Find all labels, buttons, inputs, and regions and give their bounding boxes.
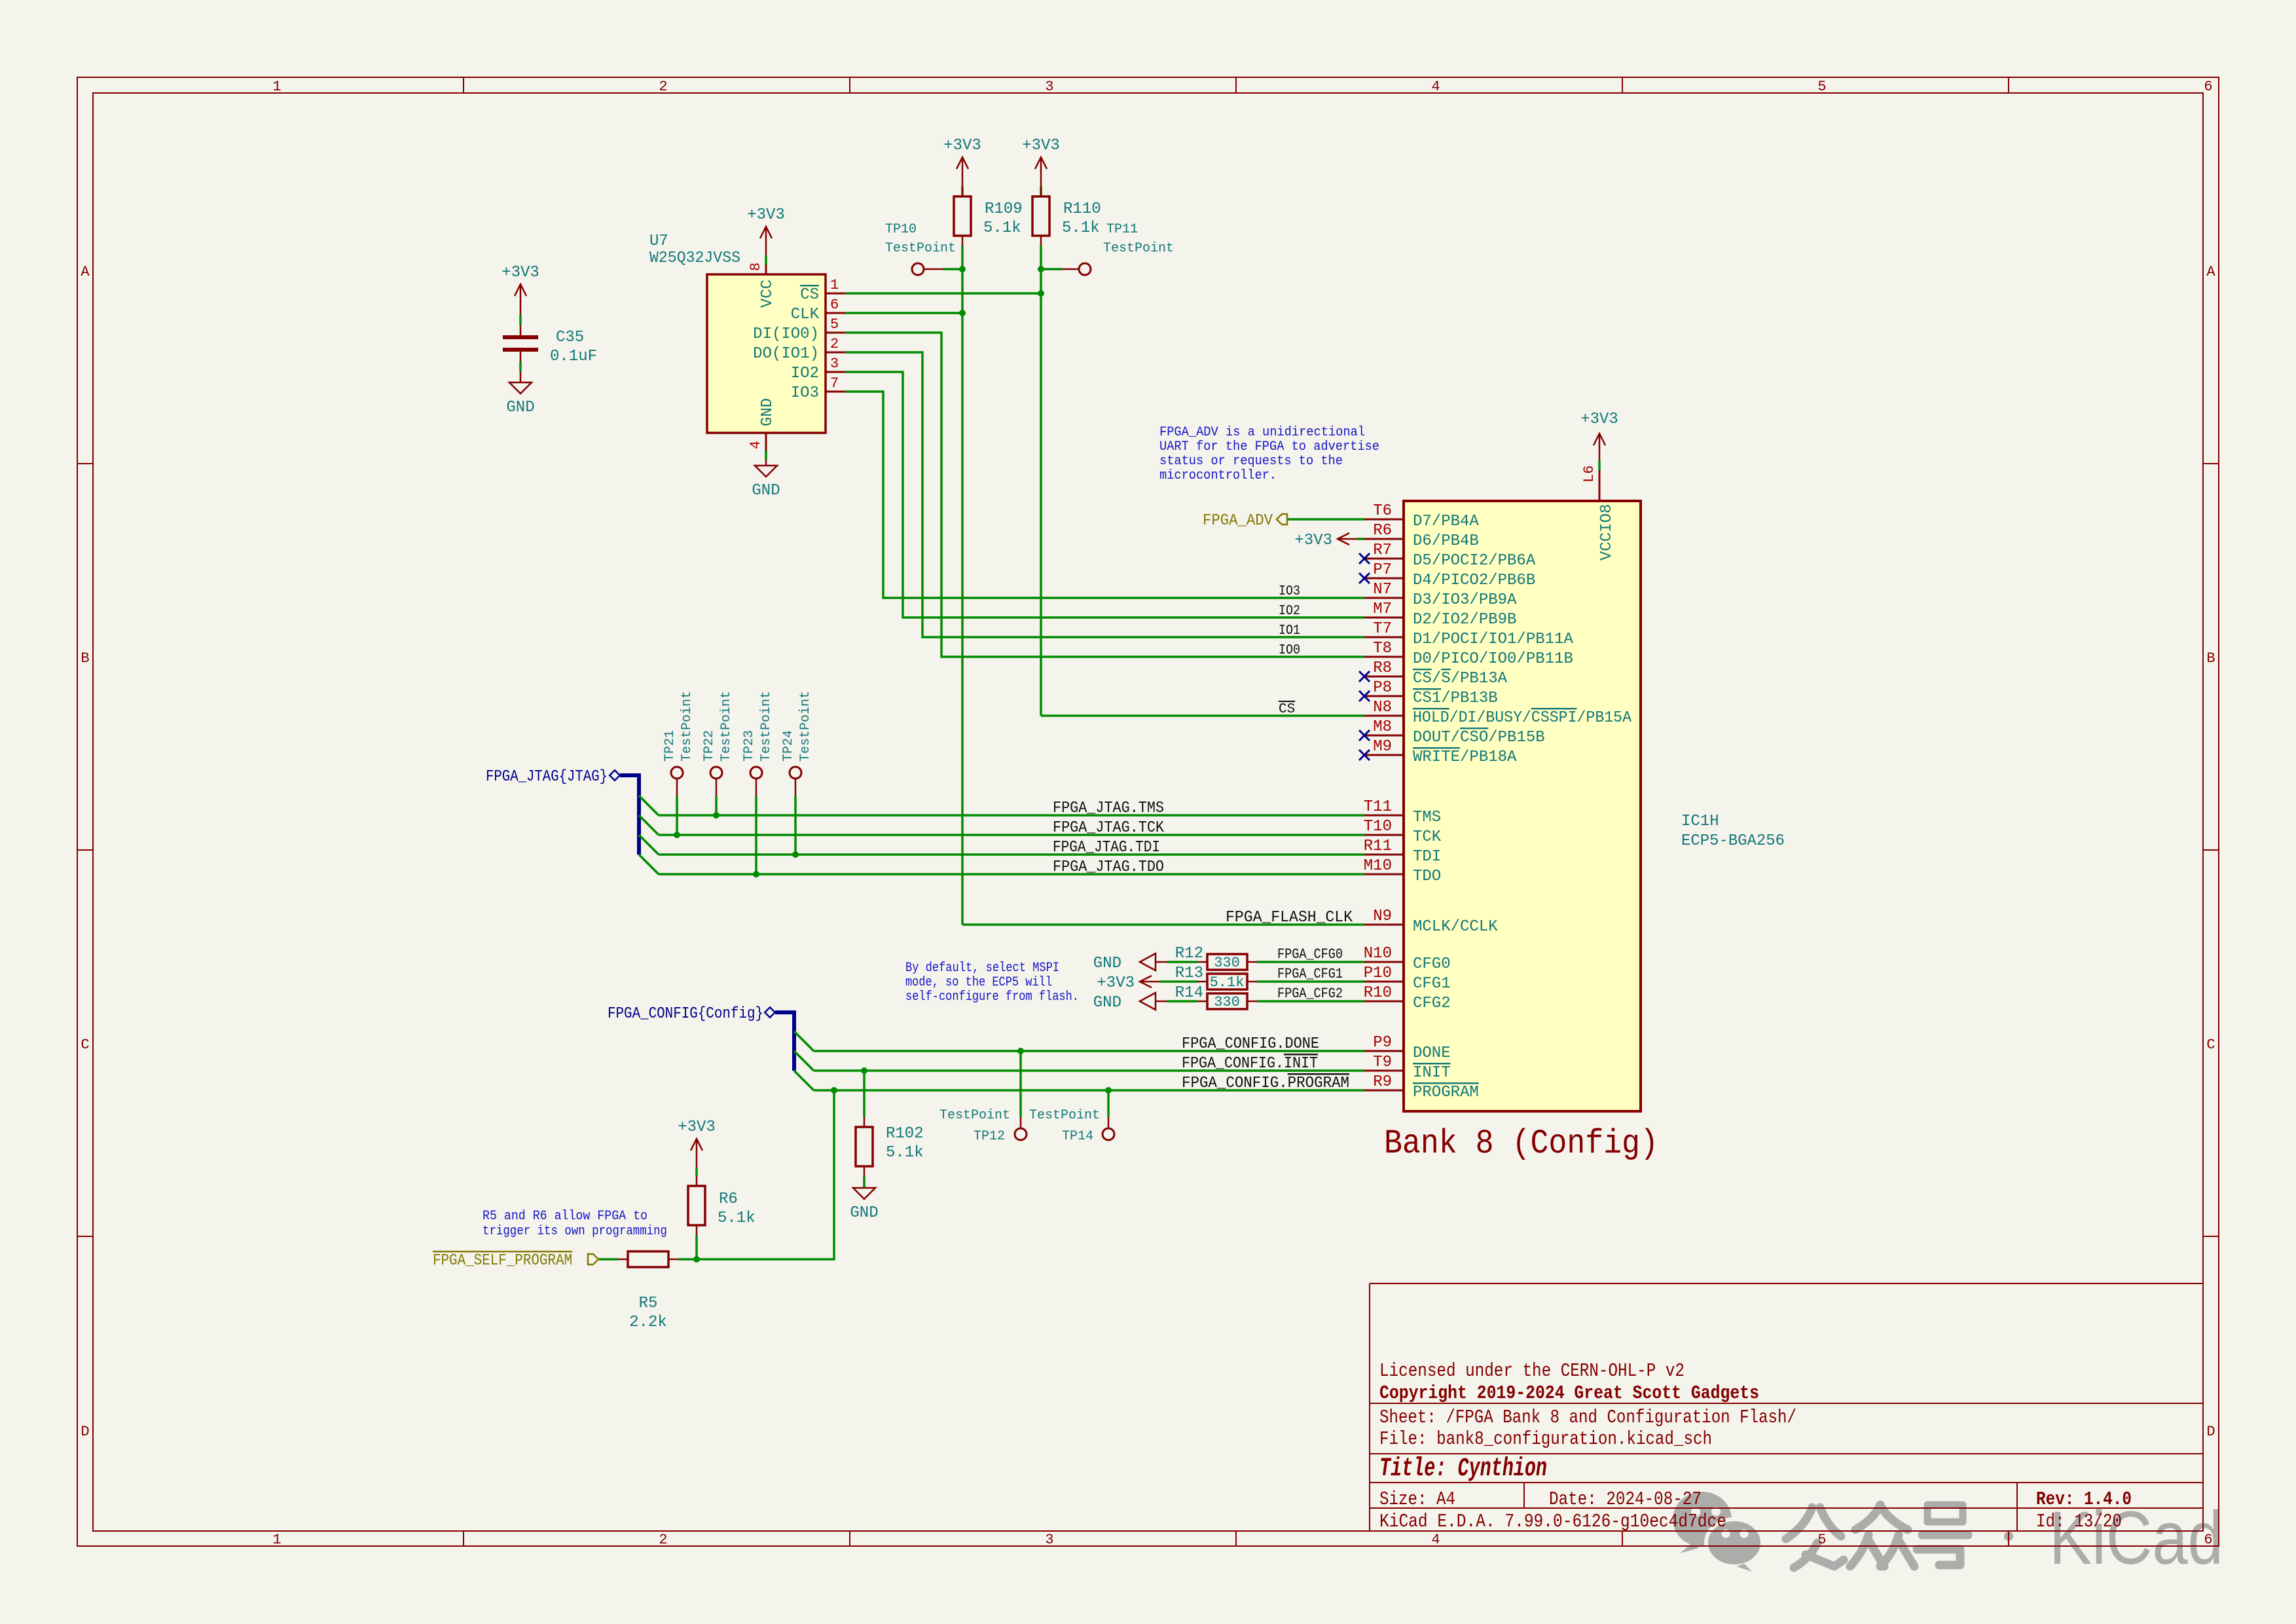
pin R10 IC1H [1364, 1001, 1404, 1003]
wire FPGA_JTAG.TCK to T10 [659, 834, 1364, 836]
svg-text:6: 6 [2204, 79, 2212, 95]
svg-text:TP23: TP23 [742, 730, 757, 762]
svg-text:FPGA_CONFIG.DONE: FPGA_CONFIG.DONE [1182, 1035, 1319, 1053]
svg-text:FPGA_CFG1: FPGA_CFG1 [1277, 966, 1343, 982]
wire TP24 [795, 779, 797, 796]
svg-text:TP22: TP22 [702, 730, 717, 762]
pin 5 U7 [826, 332, 845, 334]
svg-text:CLK: CLK [791, 306, 820, 323]
no-connect P7 [1359, 573, 1370, 583]
svg-text:D0/PICO/IO0/PB11B: D0/PICO/IO0/PB11B [1413, 650, 1573, 668]
junction [959, 310, 966, 316]
pin 8 VCC [765, 245, 767, 255]
svg-text:T6: T6 [1373, 502, 1392, 520]
svg-text:T7: T7 [1373, 620, 1392, 638]
svg-text:R12: R12 [1175, 945, 1203, 963]
pin P7 IC1H [1364, 578, 1404, 580]
svg-text:W25Q32JVSS: W25Q32JVSS [649, 249, 740, 267]
svg-text:Size: A4: Size: A4 [1379, 1488, 1455, 1510]
wire [1167, 961, 1172, 963]
svg-text:5.1k: 5.1k [886, 1144, 924, 1162]
svg-text:CS1/PB13B: CS1/PB13B [1413, 690, 1498, 707]
svg-text:CS/S/PB13A: CS/S/PB13A [1413, 670, 1508, 688]
resistor R5 2.2k [628, 1251, 668, 1267]
svg-text:L6: L6 [1581, 466, 1597, 483]
junction [1017, 1048, 1024, 1054]
wire [1167, 1000, 1172, 1003]
svg-text:File: bank8_configuration.kica: File: bank8_configuration.kicad_sch [1379, 1428, 1712, 1450]
svg-text:D1/POCI/IO1/PB11A: D1/POCI/IO1/PB11A [1413, 631, 1573, 648]
svg-text:GND: GND [1093, 955, 1121, 972]
resistor R102 5.1k [856, 1127, 873, 1166]
pin M7 IC1H [1364, 617, 1404, 619]
wire CS pin1 to R110 column [845, 292, 1041, 295]
junction [792, 851, 799, 858]
svg-text:N10: N10 [1364, 945, 1392, 963]
pin M10 IC1H [1364, 874, 1404, 876]
svg-text:FPGA_CFG0: FPGA_CFG0 [1277, 946, 1343, 963]
svg-text:R102: R102 [886, 1125, 924, 1143]
ground GND (R102) [853, 1188, 875, 1199]
power +3V3 (R110) [1035, 157, 1047, 175]
svg-text:5: 5 [830, 316, 839, 333]
wire [1159, 980, 1172, 983]
svg-text:TestPoint: TestPoint [885, 241, 956, 256]
svg-text:+3V3: +3V3 [1097, 974, 1135, 992]
junction [713, 812, 720, 819]
svg-text:4: 4 [748, 441, 764, 449]
pin 2 U7 [826, 352, 845, 354]
power +3V3 (VCCIO8) [1594, 434, 1605, 452]
wire IO2 to M7 [845, 372, 1364, 618]
svg-text:5: 5 [1817, 1532, 1826, 1548]
svg-text:C: C [2206, 1037, 2215, 1053]
svg-text:R13: R13 [1175, 965, 1203, 982]
svg-text:FPGA_JTAG.TDO: FPGA_JTAG.TDO [1053, 858, 1164, 876]
svg-text:+3V3: +3V3 [1580, 411, 1618, 428]
pin 4 GND [765, 433, 767, 451]
svg-text:R5 and R6 allow FPGA to: R5 and R6 allow FPGA to [483, 1209, 647, 1224]
svg-text:GND: GND [850, 1204, 878, 1222]
pin R11 IC1H [1364, 854, 1404, 856]
svg-text:T10: T10 [1364, 818, 1392, 836]
svg-text:CFG0: CFG0 [1413, 955, 1451, 973]
power +3V3 (R6) [691, 1139, 702, 1157]
svg-text:TDI: TDI [1413, 848, 1441, 866]
svg-text:TMS: TMS [1413, 809, 1441, 826]
svg-text:IO2: IO2 [791, 365, 819, 382]
svg-text:FPGA_JTAG.TMS: FPGA_JTAG.TMS [1053, 800, 1164, 817]
FPGA IC1H ECP5-BGA256 body [1404, 501, 1641, 1111]
wire R110 down to CS net [1040, 246, 1042, 716]
wire [520, 303, 522, 314]
pin T10 IC1H [1364, 834, 1404, 836]
wire [1040, 175, 1042, 186]
wire FPGA_ADV [1287, 518, 1364, 521]
svg-text:By default, select MSPI: By default, select MSPI [905, 961, 1059, 976]
bus entry TDI [639, 835, 659, 855]
wire FPGA_JTAG.TMS to T11 [659, 814, 1364, 817]
svg-text:C35: C35 [556, 329, 584, 346]
pin N7 IC1H [1364, 597, 1404, 599]
svg-text:microcontroller.: microcontroller. [1159, 468, 1277, 483]
svg-text:MCLK/CCLK: MCLK/CCLK [1413, 918, 1498, 936]
pin P8 IC1H [1364, 695, 1404, 697]
wire [678, 1258, 697, 1261]
pin T6 IC1H [1364, 519, 1404, 521]
svg-text:TP14: TP14 [1062, 1129, 1093, 1144]
svg-text:2: 2 [830, 336, 839, 352]
power +3V3 (C35) [515, 284, 526, 303]
svg-text:+3V3: +3V3 [1022, 137, 1060, 155]
svg-text:N9: N9 [1373, 908, 1392, 925]
svg-text:R6: R6 [1373, 522, 1392, 540]
testpoint TP24 [790, 767, 801, 779]
svg-text:R11: R11 [1364, 838, 1392, 855]
svg-text:VCC: VCC [759, 280, 776, 308]
bus entry TMS [639, 796, 659, 815]
svg-text:Title: Cynthion: Title: Cynthion [1379, 1454, 1547, 1484]
pin T8 IC1H [1364, 656, 1404, 658]
svg-text:7: 7 [830, 375, 839, 392]
svg-text:DO(IO1): DO(IO1) [753, 345, 819, 363]
svg-text:TestPoint: TestPoint [759, 691, 774, 762]
pin T9 IC1H [1364, 1070, 1404, 1072]
svg-text:D: D [2206, 1424, 2215, 1440]
pin P10 IC1H [1364, 981, 1404, 983]
svg-text:R109: R109 [985, 200, 1023, 218]
svg-text:FPGA_CONFIG.PROGRAM: FPGA_CONFIG.PROGRAM [1182, 1075, 1349, 1092]
title block frame [1370, 1283, 2203, 1284]
svg-text:FPGA_CONFIG{Config}: FPGA_CONFIG{Config} [608, 1005, 763, 1023]
junction [1105, 1087, 1112, 1094]
svg-text:2: 2 [659, 1532, 667, 1548]
svg-text:GND: GND [1093, 994, 1121, 1012]
svg-text:GND: GND [506, 399, 534, 416]
pin N10 IC1H [1364, 961, 1404, 963]
svg-text:TestPoint: TestPoint [680, 691, 695, 762]
svg-text:Licensed under the CERN-OHL-P: Licensed under the CERN-OHL-P v2 [1379, 1360, 1685, 1382]
no-connect R7 [1359, 553, 1370, 564]
svg-text:FPGA_JTAG.TCK: FPGA_JTAG.TCK [1053, 819, 1165, 837]
svg-text:CFG2: CFG2 [1413, 995, 1451, 1012]
wire [962, 175, 964, 186]
svg-text:A: A [81, 264, 90, 280]
svg-text:IO3: IO3 [1279, 584, 1300, 599]
svg-text:+3V3: +3V3 [1294, 532, 1332, 549]
svg-text:U7: U7 [649, 232, 668, 250]
svg-text:D6/PB4B: D6/PB4B [1413, 532, 1479, 550]
svg-text:TestPoint: TestPoint [1029, 1108, 1100, 1123]
svg-text:3: 3 [1045, 1532, 1053, 1548]
power +3V3 (R109) [957, 157, 968, 175]
svg-text:N8: N8 [1373, 699, 1392, 716]
resistor R13 5.1k [1207, 974, 1247, 989]
svg-text:3: 3 [830, 356, 839, 372]
svg-text:VCCIO8: VCCIO8 [1598, 504, 1616, 561]
bus FPGA_CONFIG [765, 1007, 775, 1018]
no-connect M9 [1359, 750, 1370, 760]
svg-text:R110: R110 [1063, 200, 1101, 218]
svg-text:FPGA_ADV is a unidirectional: FPGA_ADV is a unidirectional [1159, 425, 1365, 440]
capacitor C35 [520, 325, 522, 335]
svg-text:WRITE/PB18A: WRITE/PB18A [1413, 748, 1517, 766]
svg-text:1: 1 [272, 1532, 281, 1548]
svg-text:P7: P7 [1373, 561, 1392, 579]
svg-text:M9: M9 [1373, 738, 1392, 756]
svg-text:N7: N7 [1373, 581, 1392, 599]
svg-text:R14: R14 [1175, 984, 1203, 1002]
svg-text:P8: P8 [1373, 679, 1392, 697]
svg-text:330: 330 [1214, 955, 1240, 971]
ground GND (R14) [1140, 993, 1156, 1010]
svg-text:IO1: IO1 [1279, 623, 1300, 638]
svg-text:PROGRAM: PROGRAM [1413, 1084, 1479, 1101]
svg-text:FPGA_SELF_PROGRAM: FPGA_SELF_PROGRAM [433, 1252, 572, 1270]
testpoint TP22 [710, 767, 722, 779]
pin N9 IC1H [1364, 924, 1404, 926]
svg-text:3: 3 [1045, 79, 1053, 95]
svg-text:B: B [81, 650, 89, 667]
svg-text:D5/POCI2/PB6A: D5/POCI2/PB6A [1413, 552, 1536, 570]
svg-text:R5: R5 [639, 1295, 658, 1312]
svg-text:TestPoint: TestPoint [798, 691, 813, 762]
testpoint TP11 [1079, 263, 1091, 275]
pin T11 IC1H [1364, 815, 1404, 817]
svg-text:CFG1: CFG1 [1413, 975, 1451, 993]
wire [863, 1176, 866, 1187]
wire [1172, 1000, 1197, 1003]
svg-text:+3V3: +3V3 [943, 137, 981, 155]
svg-text:6: 6 [830, 297, 839, 313]
svg-text:0.1uF: 0.1uF [550, 348, 597, 365]
svg-text:T9: T9 [1373, 1054, 1392, 1071]
watermark text 公众号 [1786, 1505, 1968, 1568]
svg-text:C: C [81, 1037, 89, 1053]
hierarchical label FPGA_SELF_PROGRAM [588, 1254, 598, 1264]
wire TP11 [1041, 268, 1062, 270]
svg-text:Copyright 2019-2024 Great Scot: Copyright 2019-2024 Great Scott Gadgets [1379, 1382, 1759, 1404]
svg-text:5.1k: 5.1k [983, 219, 1021, 237]
svg-text:TCK: TCK [1413, 828, 1442, 846]
resistor R12 330 [1207, 954, 1247, 970]
testpoint TP12 [1015, 1128, 1027, 1140]
svg-text:2.2k: 2.2k [629, 1314, 667, 1331]
svg-text:1: 1 [272, 79, 281, 95]
svg-text:IC1H: IC1H [1681, 813, 1719, 830]
svg-text:FPGA_CONFIG.INIT: FPGA_CONFIG.INIT [1182, 1055, 1318, 1073]
svg-text:R8: R8 [1373, 659, 1392, 677]
svg-text:HOLD/DI/BUSY/CSSPI/PB15A: HOLD/DI/BUSY/CSSPI/PB15A [1413, 709, 1632, 727]
svg-text:DOUT/CSO/PB15B: DOUT/CSO/PB15B [1413, 729, 1545, 747]
wire [1172, 961, 1197, 963]
junction [831, 1087, 837, 1094]
svg-text:DI(IO0): DI(IO0) [753, 325, 819, 343]
svg-text:GND: GND [752, 482, 780, 500]
pin M8 IC1H [1364, 735, 1404, 737]
wire [1357, 538, 1364, 540]
svg-text:Date: 2024-08-27: Date: 2024-08-27 [1549, 1488, 1702, 1510]
svg-text:+3V3: +3V3 [501, 264, 539, 282]
wire TP22 [716, 779, 718, 796]
ground GND (C35) [509, 382, 532, 394]
watermark wechat icon [1673, 1492, 1732, 1553]
svg-text:+3V3: +3V3 [747, 206, 785, 224]
watermark dot [2004, 1532, 2013, 1541]
bus entry INIT [794, 1051, 814, 1071]
svg-text:M7: M7 [1373, 600, 1392, 618]
svg-text:TP10: TP10 [885, 222, 917, 237]
resistor R6 5.1k [688, 1186, 705, 1225]
svg-text:IO3: IO3 [791, 384, 819, 402]
testpoint TP10 [912, 263, 924, 275]
svg-text:KiCad E.D.A. 7.99.0-6126-g10ec: KiCad E.D.A. 7.99.0-6126-g10ec4d7dce [1379, 1511, 1726, 1532]
svg-text:TP12: TP12 [974, 1129, 1005, 1144]
pin R8 IC1H [1364, 676, 1404, 678]
svg-text:TDO: TDO [1413, 868, 1441, 885]
bus FPGA_JTAG [610, 770, 620, 781]
svg-text:5.1k: 5.1k [718, 1209, 756, 1227]
pin 1 U7 [826, 293, 845, 295]
testpoint TP21 [671, 767, 683, 779]
bus entry TDO [639, 855, 659, 874]
pin T7 IC1H [1364, 637, 1404, 638]
wire [696, 1157, 698, 1168]
ground GND (R12) [1140, 953, 1156, 970]
junction [753, 871, 759, 877]
frame column ticks [463, 77, 464, 93]
svg-text:P9: P9 [1373, 1034, 1392, 1052]
wire FPGA_CONFIG.DONE to P9 [814, 1050, 1364, 1052]
svg-text:B: B [2206, 650, 2215, 667]
svg-text:5.1k: 5.1k [1062, 219, 1100, 237]
svg-text:FPGA_JTAG.TDI: FPGA_JTAG.TDI [1053, 839, 1160, 857]
wire DO(IO1) to T7 [845, 352, 1364, 637]
svg-text:TestPoint: TestPoint [939, 1108, 1010, 1123]
pin 3 U7 [826, 371, 845, 373]
svg-text:1: 1 [830, 277, 839, 293]
svg-text:FPGA_CFG2: FPGA_CFG2 [1277, 986, 1343, 1002]
pin M9 IC1H [1364, 754, 1404, 756]
testpoint TP23 [750, 767, 762, 779]
svg-text:Id: 13/20: Id: 13/20 [2036, 1511, 2122, 1532]
bus entry TCK [639, 815, 659, 835]
svg-text:status or requests to the: status or requests to the [1159, 454, 1343, 469]
wire FPGA_CONFIG.PROGRAM to R9 [814, 1089, 1364, 1092]
pin P9 IC1H [1364, 1050, 1404, 1052]
svg-text:330: 330 [1214, 994, 1240, 1010]
power +3V3 (D6/PB4B) [1338, 533, 1357, 545]
svg-text:ECP5-BGA256: ECP5-BGA256 [1681, 832, 1785, 850]
svg-text:4: 4 [1431, 1532, 1440, 1548]
power +3V3 (R13) [1140, 976, 1159, 987]
junction [693, 1256, 700, 1263]
svg-text:R7: R7 [1373, 542, 1392, 559]
svg-text:P10: P10 [1364, 965, 1392, 982]
wire TP21 [676, 779, 678, 796]
svg-text:CS: CS [1279, 702, 1295, 717]
svg-text:6: 6 [2204, 1532, 2212, 1548]
pin R7 IC1H [1364, 558, 1404, 560]
svg-text:R6: R6 [719, 1190, 738, 1208]
svg-text:FPGA_ADV: FPGA_ADV [1203, 512, 1273, 530]
svg-text:self-configure from flash.: self-configure from flash. [905, 989, 1079, 1005]
svg-text:8: 8 [748, 263, 764, 271]
svg-text:R10: R10 [1364, 984, 1392, 1002]
svg-text:M10: M10 [1364, 857, 1392, 875]
svg-text:IO0: IO0 [1279, 643, 1300, 658]
svg-text:CS: CS [800, 286, 819, 304]
no-connect P8 [1359, 691, 1370, 701]
svg-text:D2/IO2/PB9B: D2/IO2/PB9B [1413, 611, 1516, 629]
wire IO3 to N7 [845, 392, 1364, 598]
svg-text:+3V3: +3V3 [678, 1118, 716, 1136]
wire FPGA_CONFIG.INIT to T9 [814, 1069, 1364, 1072]
flash U7 W25Q32JVSS body [707, 274, 826, 433]
junction [959, 266, 966, 272]
wire R109 down to CLK and MCLK [961, 246, 964, 925]
svg-text:M8: M8 [1373, 718, 1392, 736]
wire FPGA_JTAG.TDO to M10 [659, 873, 1364, 876]
svg-text:T8: T8 [1373, 640, 1392, 657]
svg-text:GND: GND [759, 398, 776, 426]
bus entry DONE [794, 1031, 814, 1051]
wire TP23 [756, 779, 757, 796]
svg-text:IO2: IO2 [1279, 604, 1300, 619]
svg-text:5.1k: 5.1k [1210, 974, 1245, 991]
svg-text:Rev: 1.4.0: Rev: 1.4.0 [2036, 1488, 2132, 1510]
svg-text:Sheet: /FPGA Bank 8 and Config: Sheet: /FPGA Bank 8 and Configuration Fl… [1379, 1407, 1796, 1428]
svg-text:D: D [81, 1424, 89, 1440]
svg-text:TP24: TP24 [781, 730, 796, 762]
svg-text:4: 4 [1431, 79, 1440, 95]
pin N8 IC1H [1364, 715, 1404, 717]
wire FPGA_JTAG.TDI to R11 [659, 853, 1364, 856]
junction [1038, 290, 1044, 297]
testpoint TP14 [1102, 1128, 1114, 1140]
wire [1172, 980, 1197, 983]
pin R9 IC1H [1364, 1090, 1404, 1092]
svg-text:DONE: DONE [1413, 1044, 1451, 1062]
pin 6 U7 [826, 312, 845, 314]
junction [861, 1067, 867, 1074]
no-connect M8 [1359, 730, 1370, 741]
frame row ticks [77, 463, 93, 464]
wire MCLK to N9 [962, 923, 1364, 926]
svg-text:trigger its own programming: trigger its own programming [483, 1224, 667, 1239]
svg-text:FPGA_FLASH_CLK: FPGA_FLASH_CLK [1226, 909, 1353, 927]
svg-text:D7/PB4A: D7/PB4A [1413, 513, 1479, 530]
svg-text:TP21: TP21 [663, 730, 678, 762]
svg-text:TP11: TP11 [1106, 222, 1138, 237]
resistor R14 330 [1207, 993, 1247, 1009]
pin 7 U7 [826, 391, 845, 393]
svg-text:5: 5 [1817, 79, 1826, 95]
svg-text:D3/IO3/PB9A: D3/IO3/PB9A [1413, 591, 1517, 609]
junction [674, 832, 680, 838]
wire DI(IO0) to T8 [845, 333, 1364, 657]
resistor R109 5.1k [954, 196, 971, 236]
svg-text:2: 2 [659, 79, 667, 95]
resistor R110 5.1k [1032, 196, 1049, 236]
wire CLK pin6 to R109 column [845, 312, 962, 314]
bus entry PROGRAM [794, 1071, 814, 1090]
svg-text:TestPoint: TestPoint [719, 691, 734, 762]
svg-text:mode, so the ECP5 will: mode, so the ECP5 will [905, 975, 1052, 990]
svg-text:TestPoint: TestPoint [1103, 241, 1174, 256]
no-connect R8 [1359, 671, 1370, 682]
svg-text:FPGA_JTAG{JTAG}: FPGA_JTAG{JTAG} [486, 768, 608, 786]
